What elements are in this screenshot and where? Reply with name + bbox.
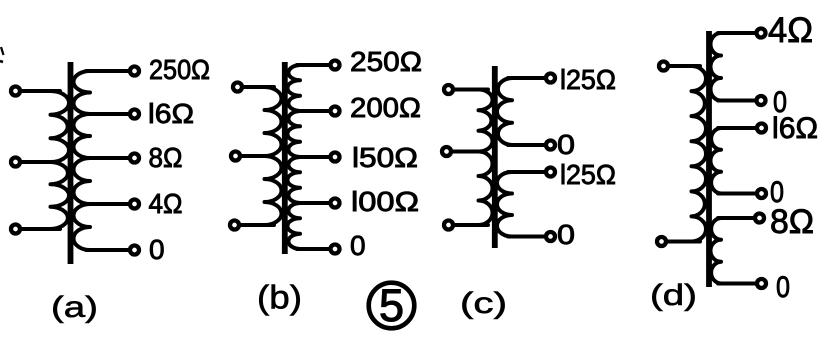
T(d) secondary 1 terminal bottom [757, 96, 766, 105]
svg-text:(b): (b) [257, 279, 302, 316]
transformer T(d) core [706, 31, 712, 287]
svg-text:250Ω: 250Ω [149, 54, 210, 85]
T(d) primary tap wire bottom [667, 240, 701, 244]
T(d) secondary 3 terminal bottom [757, 279, 766, 288]
T(d) primary tap wire top [669, 64, 701, 68]
T(d) secondary 3 tap wire top [718, 216, 754, 220]
T(d) secondary winding 2 [710, 128, 721, 194]
T(d) primary terminal top [659, 62, 668, 71]
T(d) primary terminal bottom [657, 237, 666, 246]
T(d) secondary winding 1 [711, 33, 721, 101]
svg-text:0: 0 [557, 219, 575, 250]
T(c) secondary 2 terminal top [546, 168, 555, 177]
T(d) secondary winding 3 [710, 218, 721, 284]
svg-text:4Ω: 4Ω [768, 11, 813, 50]
T(a) secondary terminals [130, 67, 139, 76]
T(c) secondary 2 tap wire top [508, 170, 545, 174]
svg-text:0: 0 [776, 271, 790, 304]
T(c) primary tap wire 2 [452, 150, 482, 154]
T(c) secondary 2 terminal bottom [546, 232, 555, 241]
T(b) primary terminal 3 [230, 221, 239, 230]
svg-text:0: 0 [350, 230, 366, 261]
T(d) secondary 1 tap wire bottom [718, 99, 756, 103]
T(c) primary terminal 1 [444, 85, 453, 94]
svg-text:(a): (a) [51, 291, 98, 324]
svg-text:l25Ω: l25Ω [560, 159, 616, 190]
T(b) primary tap wire 1 [243, 85, 275, 89]
T(c) primary terminal 2 [442, 147, 451, 156]
svg-text:l6Ω: l6Ω [148, 98, 194, 129]
T(a) primary terminal 2 [11, 158, 20, 167]
T(d) secondary 2 terminal bottom [757, 189, 766, 198]
T(c) primary terminal 3 [444, 221, 453, 230]
T(d) secondary 2 tap wire bottom [718, 192, 756, 196]
svg-text:(d): (d) [650, 279, 697, 312]
T(a) secondary winding [74, 71, 91, 114]
T(a) secondary tap wires [86, 69, 129, 73]
T(d) secondary 2 tap wire top [718, 126, 756, 130]
svg-text:250Ω: 250Ω [350, 46, 422, 77]
T(d) secondary 2 terminal top [757, 124, 766, 133]
T(a) primary winding [51, 91, 70, 229]
svg-text:4Ω: 4Ω [149, 188, 183, 219]
T(c) primary winding [479, 89, 493, 225]
T(c) secondary 2 tap wire bottom [508, 235, 545, 239]
circled number 5 [369, 283, 415, 329]
transformer T(a) core [68, 62, 74, 264]
T(b) secondary winding [287, 65, 300, 111]
T(c) primary tap wire 3 [454, 223, 489, 227]
T(b) primary winding [265, 87, 282, 225]
svg-text:0: 0 [557, 129, 575, 160]
T(b) primary tap wire 2 [241, 154, 268, 158]
transformer T(b) core [282, 62, 288, 254]
T(d) secondary 3 terminal top [755, 214, 764, 223]
T(c) secondary winding 2 [497, 172, 512, 237]
T(b) secondary terminals [331, 61, 340, 70]
svg-text:l50Ω: l50Ω [352, 142, 418, 173]
T(d) secondary 1 terminal top [757, 29, 766, 38]
T(c) secondary winding 1 [497, 78, 512, 145]
svg-text:(c): (c) [460, 287, 507, 320]
svg-text:200Ω: 200Ω [350, 92, 421, 123]
T(d) primary winding [692, 66, 707, 242]
T(d) secondary 3 tap wire bottom [718, 282, 756, 286]
T(a) primary tap wire 1 [21, 89, 61, 93]
T(a) primary tap wire 2 [21, 160, 54, 164]
T(b) primary terminal 2 [231, 152, 240, 161]
transformer T(c) core [492, 66, 498, 248]
svg-text:8Ω: 8Ω [770, 203, 814, 241]
T(c) secondary 1 tap wire bottom [508, 143, 545, 147]
svg-text:l00Ω: l00Ω [351, 186, 419, 217]
T(a) primary tap wire 3 [21, 227, 61, 231]
svg-text:0: 0 [149, 234, 165, 265]
T(d) secondary 1 tap wire top [718, 31, 756, 35]
T(b) primary tap wire 3 [240, 223, 275, 227]
svg-text:5: 5 [379, 280, 404, 331]
T(c) secondary 1 tap wire top [508, 76, 545, 80]
T(c) primary tap wire 1 [454, 88, 489, 92]
svg-text:8Ω: 8Ω [149, 142, 183, 173]
scan mark top-left [1, 47, 4, 55]
svg-text:l25Ω: l25Ω [560, 64, 616, 95]
T(c) secondary 1 terminal top [546, 74, 555, 83]
svg-text:l6Ω: l6Ω [772, 112, 818, 145]
T(a) primary terminal 3 [11, 225, 20, 234]
T(b) primary terminal 1 [233, 83, 242, 92]
T(a) primary terminal 1 [11, 87, 20, 96]
T(b) secondary tap wires [297, 63, 329, 67]
T(c) secondary 1 terminal bottom [546, 141, 555, 150]
